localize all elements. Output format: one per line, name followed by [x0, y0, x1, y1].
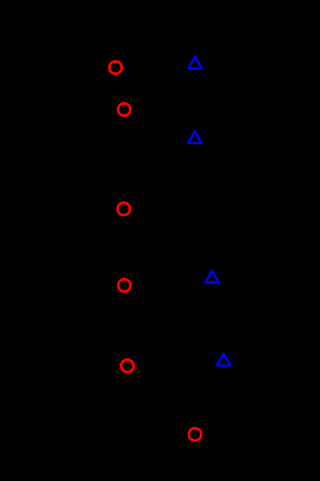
red circle marker 4: [118, 279, 130, 291]
red circle marker 1: [109, 61, 121, 73]
blue triangle marker 1: [189, 57, 202, 69]
red circle marker 2: [118, 103, 130, 115]
blue triangle marker 2: [188, 131, 201, 143]
red circle marker 6: [189, 428, 201, 440]
red circle marker 3: [118, 203, 130, 215]
red circle marker 5: [121, 360, 133, 372]
blue triangle marker 4: [217, 354, 230, 366]
blue triangle marker 3: [206, 271, 219, 283]
